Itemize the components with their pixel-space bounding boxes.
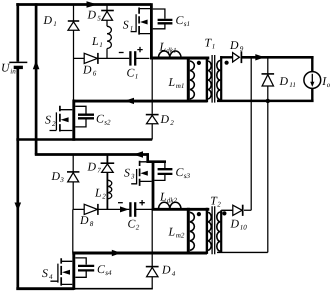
svg-text:dk1: dk1: [166, 47, 176, 55]
wire T2 secondary top: [221, 209, 233, 211]
wire N1 to D2 vertical: [151, 58, 153, 114]
svg-text:1: 1: [130, 25, 134, 33]
wire rail T1 primary top: [150, 57, 209, 60]
svg-text:D: D: [229, 38, 239, 52]
svg-text:S: S: [42, 266, 48, 280]
arrow current top rail: [87, 1, 98, 8]
node junction dot output: [266, 99, 270, 103]
svg-text:2: 2: [102, 193, 106, 201]
wire output return to phase2: [267, 101, 269, 253]
svg-text:L: L: [91, 34, 99, 48]
wire bottom rail thin: [74, 288, 153, 290]
svg-text:D: D: [79, 213, 89, 227]
svg-text:11: 11: [289, 81, 296, 89]
diode D9: [229, 38, 244, 63]
svg-text:L: L: [168, 75, 176, 89]
capacitor Cs3: [154, 163, 190, 181]
wire rail phase2 top: [35, 153, 149, 156]
inductor Lm2: [168, 208, 195, 254]
svg-text:S: S: [123, 18, 129, 32]
svg-text:C: C: [96, 111, 104, 125]
svg-text:3: 3: [130, 173, 135, 181]
capacitor Cs2: [75, 106, 111, 127]
wire output right edge: [311, 57, 313, 101]
wire rail primary-bottom upper cell: [73, 100, 207, 103]
inductor Lm1: [168, 57, 195, 103]
svg-text:1: 1: [212, 43, 216, 51]
svg-text:1: 1: [135, 73, 139, 81]
mosfet S1: [123, 3, 152, 59]
arrow current rail left: [124, 98, 134, 104]
wire T1 secondary top: [220, 56, 232, 58]
transformer T1 secondary winding: [205, 36, 229, 102]
capacitor Cs1: [153, 9, 190, 29]
diode D4: [146, 209, 176, 288]
svg-text:2: 2: [136, 224, 140, 232]
wire second bus: [35, 3, 38, 154]
wire D10 cathode feed: [244, 57, 251, 210]
voltage source Uin: [1, 3, 27, 290]
svg-text:1: 1: [53, 20, 57, 28]
svg-text:C: C: [127, 66, 135, 80]
svg-text:6: 6: [93, 70, 97, 78]
svg-text:L: L: [159, 40, 167, 54]
current source Io: [304, 72, 330, 90]
svg-text:2: 2: [170, 119, 174, 127]
svg-text:dk2: dk2: [167, 197, 178, 205]
arrow current left bus down: [15, 203, 22, 212]
transformer T2 secondary winding: [210, 194, 226, 253]
svg-text:m2: m2: [176, 232, 185, 240]
wire T2 secondary bottom: [217, 251, 268, 253]
inductor L1: [91, 26, 111, 49]
svg-text:s3: s3: [184, 172, 191, 180]
svg-text:s2: s2: [104, 119, 111, 127]
svg-text:in: in: [10, 68, 16, 76]
diode D10: [230, 205, 248, 232]
capacitor C1: [119, 47, 150, 81]
transformer T1 core: [212, 55, 215, 103]
svg-text:C: C: [176, 13, 184, 27]
svg-text:7: 7: [97, 167, 101, 175]
arrow current output rail: [255, 54, 264, 60]
capacitor C2: [118, 200, 152, 232]
svg-text:2: 2: [52, 120, 56, 128]
svg-text:D: D: [51, 169, 61, 183]
svg-text:2: 2: [217, 201, 221, 209]
inductor L2: [94, 180, 112, 201]
svg-text:s1: s1: [184, 20, 190, 28]
mosfet S3: [124, 153, 166, 210]
svg-text:D: D: [43, 13, 53, 27]
svg-text:L: L: [159, 190, 167, 204]
diode D1: [43, 13, 80, 30]
svg-text:5: 5: [97, 15, 101, 23]
mosfet S2: [45, 100, 74, 141]
arrow current second bus up: [33, 60, 40, 69]
svg-text:D: D: [82, 63, 92, 77]
diode D11: [262, 57, 296, 101]
svg-text:D: D: [87, 8, 97, 22]
wire lower mid: [73, 208, 129, 210]
arrow current into C2: [120, 206, 129, 212]
svg-text:L: L: [94, 186, 102, 200]
svg-text:m1: m1: [176, 82, 185, 90]
transformer T2 core: [212, 206, 215, 254]
svg-text:S: S: [45, 113, 51, 127]
svg-text:s4: s4: [105, 269, 112, 277]
svg-text:C: C: [128, 217, 136, 231]
svg-text:D: D: [160, 112, 170, 126]
arrow current rail phase2 left: [133, 151, 143, 157]
svg-text:S: S: [124, 166, 130, 180]
diode D2: [146, 112, 175, 140]
svg-text:4: 4: [49, 273, 53, 281]
transformer T2 primary winding: [197, 208, 211, 254]
wire node J2 lower jog: [72, 209, 74, 252]
svg-text:D: D: [230, 217, 240, 231]
arrow current rail phase2 right: [112, 250, 122, 256]
svg-text:C: C: [176, 165, 184, 179]
svg-text:1: 1: [99, 41, 103, 49]
svg-text:D: D: [161, 263, 171, 277]
wire rail T2 primary top: [152, 208, 210, 211]
wire bottom rail: [16, 287, 74, 290]
svg-text:L: L: [168, 225, 176, 239]
wire output top rail: [241, 56, 313, 59]
diode D7: [87, 155, 115, 210]
svg-text:8: 8: [90, 220, 94, 228]
svg-text:C: C: [97, 262, 105, 276]
inductor Ldk2: [159, 190, 182, 209]
diode D8: [79, 204, 98, 228]
wire top rail: [16, 3, 151, 6]
mosfet S4: [42, 252, 74, 290]
svg-text:9: 9: [240, 45, 244, 53]
wire node J1 vertical: [73, 5, 75, 101]
diode D6: [82, 53, 98, 78]
capacitor Cs4: [75, 258, 112, 277]
diode D5: [87, 5, 114, 59]
wire output bottom rail: [217, 100, 314, 103]
diode D3: [51, 155, 80, 210]
wire rail upper-cell return: [16, 138, 152, 140]
svg-text:D: D: [87, 160, 97, 174]
wire rail phase2 primary bottom: [72, 252, 207, 255]
svg-text:3: 3: [59, 176, 64, 184]
svg-text:D: D: [279, 74, 289, 88]
svg-text:4: 4: [172, 270, 176, 278]
wire upper mid: [74, 57, 130, 59]
inductor Ldk1: [159, 40, 182, 58]
svg-text:10: 10: [240, 224, 248, 232]
transformer T1 primary winding: [197, 57, 211, 103]
